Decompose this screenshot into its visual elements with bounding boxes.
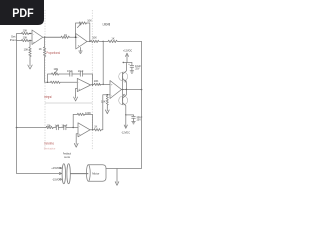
wire: P loop to output (87, 23, 90, 41)
node: error signal junction (44, 37, 45, 38)
wire: right rail (106, 42, 142, 169)
node: P sum junction (103, 41, 104, 42)
op-amp U3 (integrator) (77, 78, 90, 91)
wire: integral loop to output (83, 74, 93, 85)
svg-text:25V: 25V (135, 68, 140, 71)
ground: U3 non-inverting input (74, 88, 78, 101)
svg-text:LM348: LM348 (103, 22, 111, 26)
ground: below R3 (28, 61, 32, 69)
svg-text:+12VDC: +12VDC (123, 48, 132, 52)
svg-text:Proportional: Proportional (47, 51, 61, 55)
wire: P feedback loop up (76, 23, 80, 37)
svg-text:counts: counts (64, 155, 70, 159)
section divider line (45, 102, 92, 104)
potentiometer VR1 10K (P gain) (79, 22, 87, 24)
svg-text:10uF: 10uF (78, 70, 84, 73)
wire: U2 output (87, 40, 91, 42)
capacitor C5 10uF (+12V rail) (130, 63, 134, 71)
wire: -12V tap to cap (126, 114, 134, 116)
svg-text:1K: 1K (64, 33, 67, 37)
capacitor C1 47uF (70, 72, 72, 77)
node: rail-derivative junction (16, 127, 18, 129)
wire: feedback branch to top input (17, 34, 22, 41)
svg-text:10K: 10K (23, 35, 28, 39)
pdf badge (0, 0, 44, 25)
svg-text:10K: 10K (94, 79, 99, 83)
dashed section box left edge (44, 10, 46, 150)
wire: left feedback rail (17, 41, 62, 174)
motor M1 (86, 165, 106, 181)
svg-text:25V: 25V (137, 119, 142, 122)
node: U4 output junction (92, 129, 93, 130)
power: +12V up arrow (125, 53, 128, 62)
resistor R8 10K (integral input) (51, 81, 78, 83)
node: bus A junction (103, 84, 104, 85)
resistor R5 10K (P output) (91, 40, 104, 42)
op-amp U2 (proportional) (76, 34, 87, 50)
svg-text:47uF: 47uF (67, 70, 73, 73)
wire: line to feedback resistor (103, 40, 108, 42)
wire: bus B derivative up to summing - input (103, 95, 110, 130)
resistor R4 1K (P input) (45, 36, 77, 38)
node junction top input (29, 33, 30, 34)
wire: U5 output to base bus (122, 89, 127, 91)
node junction bottom input (29, 40, 30, 41)
op-amp U5 (summing/driver) (110, 81, 122, 99)
wire: error to integral stage (44, 37, 46, 47)
capacitor C6 10uF (-12V rail) (132, 115, 136, 122)
node: +12V rail junction (123, 62, 124, 63)
node: P inverting junction (75, 37, 76, 38)
wire: set point input (17, 40, 22, 42)
svg-text:10K: 10K (23, 28, 28, 32)
svg-text:10K: 10K (24, 47, 29, 51)
wiper arrowhead (59, 173, 62, 175)
resistor R3 10K (to ground from bottom input) (29, 41, 31, 62)
svg-text:Integral: Integral (44, 95, 52, 99)
svg-text:Derivative: Derivative (44, 146, 56, 150)
svg-text:Derivative: Derivative (44, 142, 54, 146)
node: emitter junction (126, 89, 127, 90)
wiper arrow VR1 (77, 24, 81, 28)
wire: base bus (122, 76, 124, 100)
svg-text:-12VDC: -12VDC (121, 131, 130, 135)
svg-text:1K: 1K (39, 47, 42, 51)
svg-text:1uF: 1uF (55, 124, 60, 127)
op-amp U1 (difference amp) (32, 30, 43, 45)
wire: U1 output (43, 36, 61, 38)
wiper arrow VR2 (54, 70, 57, 74)
wire: between caps (72, 73, 80, 75)
potentiometer VR2 10K (integral gain) (52, 73, 60, 75)
capacitor C3 1uF (derivative) (56, 125, 58, 130)
node: output rail junction (141, 89, 143, 91)
dashed section box right edge (91, 10, 93, 150)
svg-text:10K: 10K (87, 18, 92, 22)
resistor R13 10K (summing to ground) (106, 95, 108, 108)
wire: feedback rail branch to derivative (17, 127, 47, 129)
capacitor C4 10uF (derivative) (64, 125, 66, 130)
resistor R1 10K (top input) (22, 32, 33, 34)
transistor Q1 NPN (119, 63, 128, 90)
wire: to U5 non-inverting input (100, 83, 110, 85)
node: integral loop tap (47, 82, 48, 83)
wire: bus A from P down to summing + input (102, 41, 104, 84)
resistor R2 10K (bottom input) (22, 39, 33, 41)
ground: U2 non-inverting input (79, 48, 83, 54)
ground: below C6 (132, 122, 136, 124)
resistor R12 1K (D output) (94, 129, 103, 131)
node: U2 output junction (89, 41, 90, 42)
op-amp U4 (differentiator) (78, 123, 90, 137)
transistor Q2 PNP (119, 90, 128, 115)
mechanical shaft (70, 173, 88, 175)
svg-text:1K: 1K (94, 125, 97, 129)
capacitor C2 10uF (80, 72, 82, 77)
wire: integral input line (45, 81, 51, 83)
node: -12V rail junction (125, 114, 126, 115)
svg-text:10K: 10K (53, 67, 58, 71)
resistor R6 1K (output feedback) (108, 40, 119, 42)
svg-text:Motor: Motor (92, 172, 99, 176)
svg-text:10K: 10K (101, 99, 106, 103)
wire: down to integral input line (44, 60, 46, 82)
resistor R10 10k (derivative input) (46, 126, 56, 128)
resistor R9 10K (I output) (94, 83, 100, 85)
svg-text:Point: Point (10, 38, 17, 42)
resistor R11 100K (D feedback) (77, 113, 85, 115)
power: -12V down arrow (124, 115, 127, 128)
svg-text:10uF: 10uF (62, 124, 68, 127)
wire: D feedback loop up (73, 114, 77, 127)
wire: D loop to output (86, 114, 93, 129)
wire: -15V arrow into pot (60, 178, 62, 181)
wire: +15V arrow into pot (60, 166, 62, 169)
node: base bus junction (122, 89, 123, 90)
wire: U3 output (91, 83, 94, 85)
wire: +12V tap to cap (123, 62, 132, 64)
ground: below C5 (130, 71, 134, 73)
wire: integral loop middle (60, 73, 70, 75)
svg-text:10K: 10K (92, 36, 97, 40)
svg-text:PDF: PDF (12, 6, 33, 20)
wire: U4 output (90, 129, 94, 131)
resistor R7 (error drop) (43, 47, 45, 60)
potentiometer VR3 (feedback pot) (62, 164, 70, 184)
node: D loop junction (73, 127, 74, 128)
ground: below R13 (105, 107, 109, 114)
node: bus B junction (107, 94, 108, 95)
node: U3 output junction (92, 84, 93, 85)
wire: to right rail (119, 41, 142, 43)
svg-text:10k: 10k (47, 123, 52, 127)
ground: motor output (115, 169, 119, 186)
ground: U4 non-inverting input (74, 134, 78, 147)
wire: to U4 inverting input (66, 127, 78, 129)
wire: between derivative caps (58, 127, 63, 129)
wire: integral loop up (48, 74, 52, 82)
wire: emitter output line (126, 89, 141, 91)
svg-text:1K: 1K (111, 37, 114, 41)
